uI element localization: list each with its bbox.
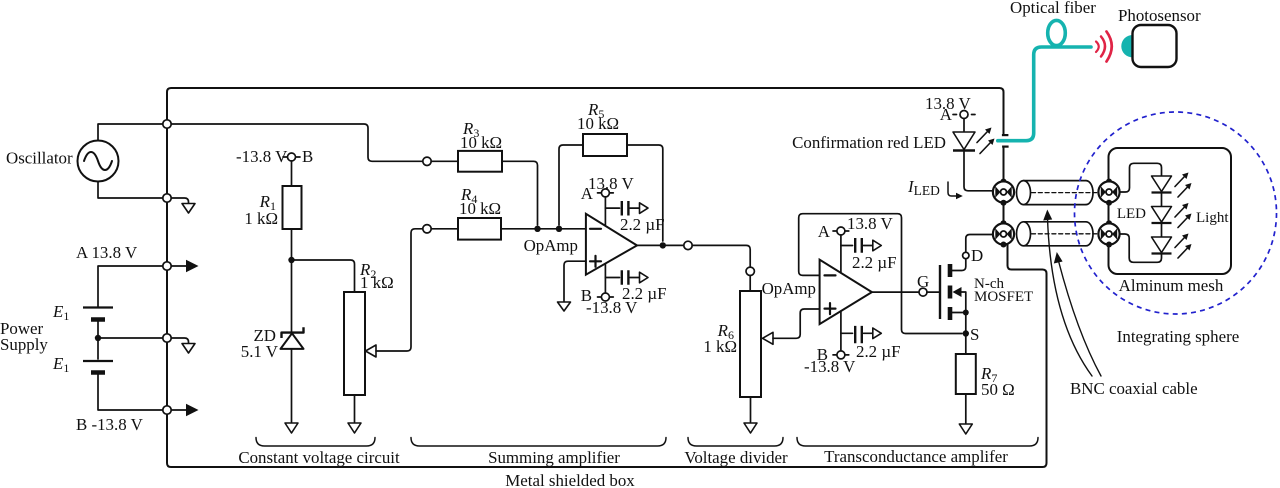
svg-text:1 kΩ: 1 kΩ	[703, 337, 737, 356]
svg-text:13.8 V: 13.8 V	[847, 214, 893, 233]
svg-text:Optical fiber: Optical fiber	[1010, 0, 1096, 17]
svg-text:B: B	[302, 147, 313, 166]
svg-text:Voltage divider: Voltage divider	[684, 448, 788, 467]
svg-text:A: A	[940, 105, 953, 124]
svg-text:Summing amplifier: Summing amplifier	[488, 448, 620, 467]
svg-text:2.2 µF: 2.2 µF	[856, 342, 900, 361]
svg-text:Metal shielded box: Metal shielded box	[505, 471, 635, 488]
svg-text:Transconductance amplifer: Transconductance amplifer	[824, 447, 1008, 466]
svg-text:1 kΩ: 1 kΩ	[360, 273, 394, 292]
svg-text:BNC coaxial cable: BNC coaxial cable	[1070, 379, 1198, 398]
svg-text:Confirmation red LED: Confirmation red LED	[792, 133, 946, 152]
svg-text:Light: Light	[1196, 210, 1229, 226]
svg-text:Constant voltage circuit: Constant voltage circuit	[238, 448, 400, 467]
svg-text:LED: LED	[1117, 206, 1146, 222]
svg-text:50 Ω: 50 Ω	[981, 380, 1015, 399]
svg-text:Supply: Supply	[0, 335, 48, 354]
svg-text:A 13.8 V: A 13.8 V	[76, 243, 138, 262]
svg-text:OpAmp: OpAmp	[524, 236, 578, 255]
svg-text:S: S	[970, 325, 979, 344]
svg-text:2.2 µF: 2.2 µF	[620, 215, 664, 234]
svg-text:10 kΩ: 10 kΩ	[459, 199, 501, 218]
svg-text:OpAmp: OpAmp	[762, 279, 816, 298]
svg-text:Integrating sphere: Integrating sphere	[1117, 327, 1239, 346]
svg-text:-13.8 V: -13.8 V	[236, 147, 288, 166]
svg-text:Photosensor: Photosensor	[1118, 6, 1201, 25]
svg-text:A: A	[818, 222, 831, 241]
svg-text:10 kΩ: 10 kΩ	[460, 133, 502, 152]
svg-text:10 kΩ: 10 kΩ	[577, 114, 619, 133]
svg-text:MOSFET: MOSFET	[974, 289, 1033, 305]
svg-text:D: D	[971, 246, 983, 265]
svg-text:-13.8 V: -13.8 V	[804, 357, 856, 376]
svg-text:-13.8 V: -13.8 V	[586, 298, 638, 317]
svg-text:Alminum mesh: Alminum mesh	[1119, 276, 1224, 295]
svg-text:B -13.8 V: B -13.8 V	[76, 415, 144, 434]
svg-text:G: G	[917, 272, 929, 291]
svg-text:2.2 µF: 2.2 µF	[852, 253, 896, 272]
svg-text:A: A	[581, 184, 594, 203]
svg-text:5.1 V: 5.1 V	[241, 342, 279, 361]
svg-text:13.8 V: 13.8 V	[588, 174, 634, 193]
svg-text:Oscillator: Oscillator	[6, 149, 73, 168]
svg-text:1 kΩ: 1 kΩ	[244, 209, 278, 228]
